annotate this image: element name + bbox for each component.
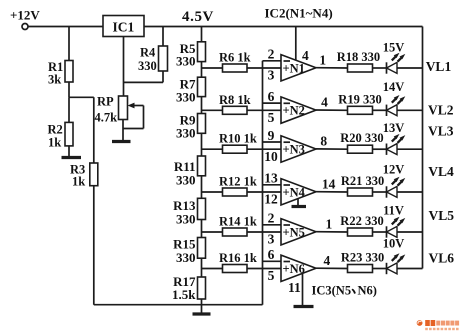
svg-text:R4: R4 [140,46,156,60]
wire output row 2 [316,109,348,111]
svg-text:10V: 10V [383,236,405,250]
wire chain tap row 3 [202,148,223,150]
svg-text:VL5: VL5 [429,208,455,223]
svg-text:330: 330 [176,173,196,188]
resistor R7 330 [198,77,206,96]
wire R3 bottom to bus [94,304,263,306]
svg-text:13V: 13V [383,121,405,135]
wire inverting-input bus [262,61,264,305]
svg-text:6: 6 [268,247,275,262]
wire output row 3 [316,148,348,150]
svg-text:10: 10 [264,149,278,164]
ground below R2 [62,156,82,159]
svg-text:R21 330: R21 330 [341,174,384,188]
svg-text:4: 4 [321,95,328,110]
resistor R19 330 [348,106,373,114]
svg-text:330: 330 [176,54,196,69]
svg-text:R19 330: R19 330 [338,92,381,106]
resistor R12 1k [223,188,248,196]
svg-text:3: 3 [268,68,275,83]
wire chain segment [201,133,203,156]
resistor R23 330 [348,265,373,273]
op-amp N2 [281,97,316,123]
svg-text:RP: RP [97,95,114,109]
resistor R16 1k [223,265,248,273]
wire right rail down to VL6 row [422,27,424,269]
LED VL1 [386,62,388,73]
terminal +12V input [22,24,28,30]
wire R16 to noninverting input [247,268,281,270]
potentiometer RP 4.7k [119,96,128,120]
wire R21 to LED [373,191,387,193]
svg-text:VL3: VL3 [428,123,454,138]
svg-text:IC1: IC1 [113,20,135,35]
svg-text:+12V: +12V [10,8,40,23]
wire chain tap row 4 [202,191,223,193]
wire R20 to LED [373,148,387,150]
ground below N4 [297,198,299,206]
LED VL5 [386,226,388,237]
svg-text:2: 2 [268,211,275,226]
wire bus to inverting input [263,184,282,186]
resistor R1 3k [68,27,70,61]
resistor R6 1k [223,64,248,72]
ground below R17 [193,312,211,315]
wire R12 to noninverting input [247,191,281,193]
wire bus to inverting input [263,260,282,262]
op-amp N4 [281,179,316,205]
svg-text:330: 330 [176,89,196,104]
svg-text:R2: R2 [48,123,63,137]
svg-text:330: 330 [138,59,157,73]
wire chain tap row 6 [202,268,223,270]
svg-text:11V: 11V [383,204,404,218]
watermark logo [417,320,459,330]
svg-text:+N5: +N5 [283,225,305,239]
wire chain segment [201,176,203,199]
svg-text:+N3: +N3 [283,143,305,157]
svg-text:R20 330: R20 330 [340,131,383,145]
svg-text:+N2: +N2 [283,104,305,118]
svg-text:R12 1k: R12 1k [219,175,257,189]
svg-text:3k: 3k [48,73,61,87]
wire LED to rail [397,67,423,69]
svg-text:11: 11 [288,280,301,295]
svg-text:R22 330: R22 330 [340,214,383,228]
wire R8 to noninverting input [247,109,281,111]
svg-text:IC2(N1~N4): IC2(N1~N4) [265,6,333,21]
svg-text:IC3(N5: IC3(N5 [312,284,352,298]
svg-text:9: 9 [268,128,275,143]
svg-text:1: 1 [319,52,326,67]
resistor R20 330 [348,145,373,153]
svg-text:12V: 12V [383,163,405,177]
wire LED to rail [397,231,423,233]
wire output row 4 [316,191,348,193]
resistor R15 330 [198,238,206,259]
resistor R18 330 [348,64,373,72]
op-amp N5 [281,219,316,245]
wire chain tap row 1 [202,67,223,69]
wire top rail left segment [28,26,103,28]
svg-text:330: 330 [176,250,196,265]
resistor R2 1k [68,97,70,122]
resistor R13 330 [198,198,206,219]
svg-text:+N6: +N6 [283,262,305,276]
svg-text:1: 1 [326,216,333,231]
svg-text:R16 1k: R16 1k [219,251,257,265]
svg-text:R6 1k: R6 1k [219,51,251,65]
svg-text:VL1: VL1 [426,59,452,74]
node R1/R2/R3 junction wire [69,96,94,98]
svg-text:14V: 14V [383,80,405,94]
wire output row 5 [316,231,348,233]
wire R14 to noninverting input [247,231,281,233]
wire IC1 adj pin down to RP [123,37,125,97]
svg-text:8: 8 [320,134,327,149]
resistor R9 330 [198,114,206,134]
svg-text:VL6: VL6 [429,251,455,266]
LED VL3 [386,144,388,155]
wire R10 to noninverting input [247,148,281,150]
wire chain tap row 5 [202,231,223,233]
svg-text:12: 12 [264,192,278,207]
wire output row 6 [316,267,348,269]
resistor R11 330 [198,156,206,176]
svg-text:R23 330: R23 330 [341,251,384,265]
wire chain column top [201,27,203,42]
svg-text:R14 1k: R14 1k [219,215,257,229]
wire chain tap row 2 [202,109,223,111]
svg-text:2: 2 [268,47,275,62]
regulator IC1 [103,16,144,37]
svg-text:R10 1k: R10 1k [219,132,257,146]
LED VL6 [386,263,388,274]
wire top rail right segment (4.5V rail) [144,26,423,28]
svg-text:6: 6 [268,89,275,104]
svg-text:1k: 1k [48,136,61,150]
svg-text:330: 330 [176,125,196,140]
wire chain segment [201,220,203,238]
wire R22 to LED [373,231,387,233]
svg-text:5: 5 [268,268,275,283]
svg-text:1.5k: 1.5k [172,287,196,302]
wire IC2 pin 4 supply [295,27,297,61]
op-amp N1 [281,55,316,81]
wire LED to rail [397,148,423,150]
wire bus to inverting input [263,102,282,104]
wire chain segment [201,97,203,114]
wire LED to rail [397,191,423,193]
resistor R3 1k [93,97,95,163]
svg-text:R18 330: R18 330 [337,50,380,64]
resistor R5 330 [198,42,206,62]
svg-text:14: 14 [322,176,336,191]
wire R19 to LED [373,109,387,111]
wire chain segment [201,258,203,277]
wire R23 to LED [373,268,387,270]
svg-text:3: 3 [268,232,275,247]
resistor R4 330 [162,27,164,47]
ground below N6 [302,273,304,306]
resistor R17 1.5k [198,277,206,299]
wire R6 to noninverting input [247,67,281,69]
op-amp N3 [281,136,316,162]
svg-text:15V: 15V [383,40,405,54]
resistor R22 330 [348,228,373,236]
LED VL4 [386,186,388,197]
wire bus to inverting input [263,224,282,226]
svg-text:+N4: +N4 [283,185,306,199]
wire output row 1 [316,67,348,69]
svg-text:+N1: +N1 [283,61,305,75]
svg-text:VL4: VL4 [428,164,454,179]
wire LED to rail [397,268,423,270]
LED VL2 [386,105,388,116]
svg-text:N6): N6) [358,284,377,298]
wire chain segment [201,62,203,78]
ground below RP [112,140,131,143]
svg-text:13: 13 [264,171,278,186]
resistor R10 1k [223,145,248,153]
svg-text:4.5V: 4.5V [182,9,214,25]
svg-text:5: 5 [268,110,275,125]
svg-text:VL2: VL2 [428,103,454,118]
resistor R8 1k [223,106,248,114]
wire bus to inverting input [263,141,282,143]
svg-text:R8 1k: R8 1k [219,93,251,107]
svg-text:1k: 1k [72,175,85,189]
wire LED to rail [397,109,423,111]
svg-text:330: 330 [176,212,196,227]
op-amp N6 [281,255,316,281]
svg-text:4: 4 [324,253,331,268]
resistor R14 1k [223,228,248,236]
wire R17 bottom to ground [201,299,203,314]
wire bus to inverting input [263,60,282,62]
svg-text:4.7k: 4.7k [95,111,118,125]
wire R18 to LED [373,67,387,69]
resistor R21 330 [348,188,373,196]
